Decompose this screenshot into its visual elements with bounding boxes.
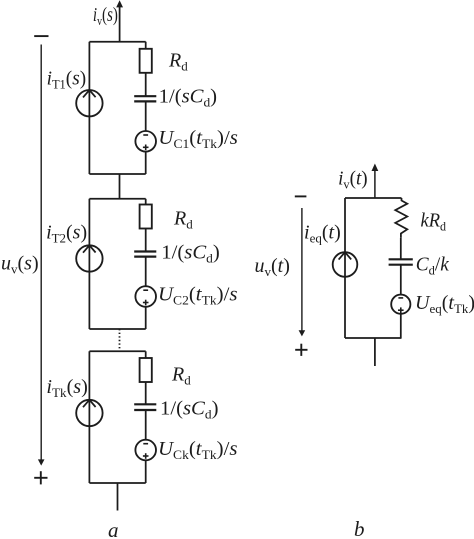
voltage source U_Ck(t_Tk)/s [135,440,156,461]
wire voltage source to bottom blockk [145,460,147,483]
plus sign of u_v(t) [295,344,307,356]
label i_v(t) [338,168,368,192]
svg-text:Rd: Rd [168,50,188,74]
minus sign of u_v(t) [295,195,307,197]
label i_eq(t) [304,222,341,246]
svg-text:1/(sCd): 1/(sCd) [159,85,218,109]
wire block1 top horizontal [89,41,145,43]
wire resistor to capacitor blockk [145,382,147,404]
label u_v(s) [1,253,39,277]
label 1/(sC_d) block1 [159,85,218,109]
capacitor 1/(sC_d) block2 [134,252,156,257]
wire circuit b bottom stub [374,338,376,366]
label i_Tk(s) [46,376,88,400]
wire block2 top horizontal [89,198,145,200]
label R_d blockk [171,364,191,388]
wire resistor to capacitor block2 [145,229,147,252]
label i_v(s) top current [93,4,118,28]
label a [108,518,119,539]
label U_Ck(t_Tk)/s [158,438,238,462]
svg-text:UC1(tTk)/s: UC1(tTk)/s [158,127,238,151]
resistor R_d blockk [140,358,152,382]
capacitor C_d/k [389,259,413,264]
wire blockk right top lead [145,351,147,358]
wire blockk bottom stub [117,483,119,511]
label u_v(t) [255,255,290,279]
wire blockk left branch [88,351,90,483]
wire blockk bottom horizontal [89,482,145,484]
svg-text:iTk(s): iTk(s) [46,376,88,400]
svg-text:ieq(t): ieq(t) [304,222,341,246]
svg-text:1/(sCd): 1/(sCd) [160,398,219,422]
label C_d/k [416,254,450,278]
wire block1 right top lead [145,42,147,49]
label 1/(sC_d) blockk [160,398,219,422]
current source i_Tk(s) [76,400,102,426]
label U_C2(t_Tk)/s [158,284,238,308]
wire dotted continuation block2 to blockk [119,329,121,351]
svg-text:Ueq(tTk): Ueq(tTk) [415,292,474,316]
capacitor 1/(sC_d) blockk [134,404,156,410]
svg-text:iT2(s): iT2(s) [46,222,87,246]
svg-text:Rd: Rd [173,208,193,232]
label U_C1(t_Tk)/s [158,127,238,151]
resistor kR_d zigzag [395,198,407,238]
svg-text:b: b [354,517,365,539]
wire block2 bottom horizontal [89,328,145,330]
wire capacitor to voltage source blockk [145,410,147,440]
svg-text:1/(sCd): 1/(sCd) [161,242,220,266]
label i_T2(s) [46,222,87,246]
wire voltage source to bottom block1 [145,152,147,174]
wire capacitor to voltage source block2 [145,257,147,287]
plus sign of u_v(s) [34,471,47,484]
voltage source U_C1(t_Tk)/s [135,131,156,152]
resistor R_d block1 [140,49,152,73]
wire block1 bottom horizontal [89,173,145,175]
svg-text:UCk(tTk)/s: UCk(tTk)/s [158,438,238,462]
wire voltage source to bottom (b) [400,314,402,338]
svg-text:Cd/k: Cd/k [416,254,450,278]
wire block2 right top lead [145,199,147,205]
wire circuit b top horizontal [345,197,402,199]
wire voltage source to bottom block2 [145,307,147,329]
wire circuit b left branch [344,198,346,338]
wire: top lead of circuit b with upward arrow i_v(t) [372,164,379,199]
label i_T1(s) [47,68,87,92]
svg-text:iv(s): iv(s) [93,4,118,28]
svg-text:Rd: Rd [171,364,191,388]
arrow u_v(s) voltage reference [38,45,45,466]
resistor R_d block2 [140,205,152,229]
wire capacitor to voltage source block1 [145,101,147,131]
label R_d block2 [173,208,193,232]
wire resistor to capacitor block1 [145,73,147,96]
wire blockk top horizontal [89,350,145,352]
label kR_d [421,210,447,234]
label U_eq(t_Tk) [415,292,474,316]
svg-text:uv(t): uv(t) [255,255,290,279]
svg-text:iv(t): iv(t) [338,168,368,192]
wire: top lead of circuit a with upward arrow i_v(s) [116,0,123,42]
minus sign of u_v(s) [34,35,48,37]
voltage source U_C2(t_Tk)/s [135,286,156,307]
wire block1 left branch [88,42,90,174]
svg-text:uv(s): uv(s) [1,253,39,277]
svg-text:UC2(tTk)/s: UC2(tTk)/s [158,284,238,308]
voltage source U_eq(t_Tk) [391,295,410,314]
wire junction block1 to block2 [119,174,121,199]
capacitor 1/(sC_d) block1 [134,96,156,101]
label 1/(sC_d) block2 [161,242,220,266]
wire zigzag to capacitor [400,238,402,259]
wire circuit b bottom horizontal [345,337,402,339]
wire capacitor to voltage source (b) [400,265,402,295]
label b [354,517,365,539]
svg-text:kRd: kRd [421,210,447,234]
arrow u_v(t) voltage reference [299,208,306,336]
label R_d block1 [168,50,188,74]
current source i_T2(s) [76,245,102,271]
svg-text:iT1(s): iT1(s) [47,68,87,92]
current source i_eq(t) [333,252,358,277]
current source i_T1(s) [76,90,102,116]
svg-text:a: a [108,518,119,539]
wire block2 left branch [88,199,90,329]
